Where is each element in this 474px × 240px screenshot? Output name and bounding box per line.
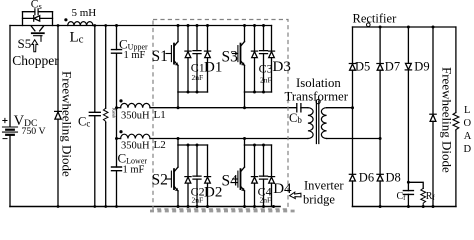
svg-text:D6: D6 bbox=[359, 171, 374, 185]
svg-text:D1: D1 bbox=[204, 59, 222, 75]
wire Cf-Rf link bbox=[408, 182, 423, 188]
svg-text:D2: D2 bbox=[204, 184, 222, 200]
wire node B (lower phase) with inductor L2 bbox=[117, 138, 121, 140]
svg-text:S3: S3 bbox=[222, 49, 239, 66]
diode D3 bbox=[268, 26, 274, 93]
svg-text:D9: D9 bbox=[414, 60, 429, 74]
wire node A (upper phase) with inductor L1 bbox=[117, 107, 121, 109]
svg-text:5 mH: 5 mH bbox=[72, 7, 97, 19]
transistor S3 IGBT leg bbox=[233, 26, 245, 93]
transistor S5 chopper IGBT bbox=[31, 26, 44, 42]
transformer isolation: primary winding bbox=[308, 108, 313, 139]
wire left rail bottom bbox=[9, 135, 11, 207]
svg-text:Transformer: Transformer bbox=[285, 89, 349, 103]
resistor LOAD bbox=[453, 113, 459, 131]
svg-text:bridge: bridge bbox=[303, 192, 335, 206]
wire D5/D6 branch bbox=[352, 27, 354, 207]
wire freewheeling branch (right) bbox=[432, 27, 434, 207]
svg-text:L: L bbox=[464, 105, 470, 116]
transformer secondary winding bbox=[321, 108, 326, 139]
svg-text:2nF: 2nF bbox=[192, 73, 204, 82]
arrow inverter bridge (hollow left arrow) bbox=[290, 192, 301, 199]
wire S1 phase stub bbox=[177, 92, 179, 108]
svg-text:A: A bbox=[464, 131, 472, 142]
capacitor Cs snubber top branch bbox=[23, 9, 53, 15]
capacitor Cc bbox=[89, 112, 100, 115]
resistor Rsnub branch bbox=[105, 26, 107, 207]
diode D4 bbox=[268, 145, 274, 207]
svg-text:350uH: 350uH bbox=[121, 141, 150, 152]
svg-text:Inverter: Inverter bbox=[304, 178, 344, 192]
capacitor Cf bbox=[403, 191, 413, 195]
arrow S5 gate (hollow up arrow) bbox=[32, 40, 38, 52]
svg-text:Chopper: Chopper bbox=[12, 53, 59, 68]
svg-text:2nF: 2nF bbox=[260, 195, 272, 204]
wire D7/D8 branch bbox=[379, 27, 381, 207]
transformer shield terminal circle bbox=[316, 100, 320, 104]
wire midpoint branch bbox=[116, 26, 118, 207]
svg-text:2nF: 2nF bbox=[260, 75, 272, 84]
wire rectifier top rail bbox=[353, 26, 456, 28]
svg-text:Rectifier: Rectifier bbox=[353, 12, 398, 26]
capacitor C_Lower bbox=[112, 167, 122, 171]
capacitor C3 2nF bbox=[260, 26, 268, 93]
wire snubber stubs bbox=[23, 12, 53, 26]
svg-text:Isolation: Isolation bbox=[296, 76, 341, 90]
wire S4 phase stub bbox=[244, 139, 246, 146]
wire rectifier bottom rail bbox=[353, 206, 456, 208]
svg-text:Cs: Cs bbox=[31, 0, 42, 11]
terminal circle under Rectifier label bbox=[367, 23, 371, 27]
wire S1 leg bottom junction bbox=[178, 91, 208, 93]
diode snubber (chopper) bbox=[23, 16, 53, 22]
svg-text:D4: D4 bbox=[273, 181, 292, 197]
wire freewheeling diode branch (left) bbox=[57, 26, 59, 207]
svg-text:Freewheeling Diode: Freewheeling Diode bbox=[439, 67, 454, 173]
diode D7 bbox=[377, 64, 383, 71]
diode D2 bbox=[204, 145, 210, 207]
capacitor Cb blocking bbox=[297, 104, 308, 112]
inductor L2 350uH bbox=[121, 134, 150, 138]
wire S3 phase stub bbox=[244, 92, 246, 108]
battery VDC bbox=[3, 118, 18, 138]
svg-text:D8: D8 bbox=[386, 171, 401, 185]
diode D1 bbox=[204, 26, 210, 93]
svg-text:350uH: 350uH bbox=[121, 111, 150, 122]
label LOAD bbox=[464, 105, 472, 155]
svg-text:S5: S5 bbox=[18, 36, 32, 51]
wire bottom rail (DC-) bbox=[10, 206, 280, 208]
inductor polarity dots bbox=[64, 18, 67, 21]
transistor S4 IGBT leg bbox=[233, 145, 245, 207]
dashed box inverter bridge bbox=[153, 20, 288, 210]
svg-text:L1: L1 bbox=[154, 109, 166, 121]
inductor Lc 5 mH bbox=[68, 22, 93, 26]
dashed box bottom thick dashes bbox=[150, 210, 295, 213]
svg-text:750 V: 750 V bbox=[22, 126, 46, 137]
transistor S2 IGBT leg bbox=[166, 145, 178, 207]
diode S4 antiparallel bbox=[251, 145, 257, 207]
wire secondary bottom bbox=[327, 138, 381, 140]
wire S4 leg top junction bbox=[245, 144, 272, 146]
svg-text:S1: S1 bbox=[152, 48, 168, 65]
wire secondary top bbox=[327, 107, 353, 109]
diode S3 antiparallel bbox=[251, 26, 257, 93]
svg-text:2nF: 2nF bbox=[192, 195, 204, 204]
resistor Rf bbox=[421, 188, 426, 206]
wire D9/Cf branch bbox=[407, 27, 409, 207]
svg-text:Freewheeling Diode: Freewheeling Diode bbox=[60, 71, 75, 177]
svg-text:D7: D7 bbox=[385, 60, 400, 74]
svg-text:D3: D3 bbox=[273, 59, 291, 75]
capacitor C1 2nF bbox=[193, 26, 201, 93]
svg-text:1 mF: 1 mF bbox=[123, 164, 145, 175]
diode D9 (reversed) bbox=[405, 63, 411, 70]
capacitor C_Upper bbox=[112, 50, 122, 54]
wire left rail top bbox=[9, 26, 11, 127]
svg-text:S4: S4 bbox=[222, 173, 239, 190]
diode freewheeling left bbox=[55, 111, 62, 119]
diode freewheeling right bbox=[430, 114, 436, 121]
diode D6 bbox=[349, 174, 355, 181]
transformer core bbox=[316, 101, 318, 144]
svg-text:D5: D5 bbox=[355, 60, 370, 74]
svg-text:S2: S2 bbox=[152, 172, 168, 189]
wire S2 leg top junction bbox=[178, 144, 208, 146]
svg-text:L2: L2 bbox=[154, 139, 166, 151]
resistor Rsnub zigzag bbox=[103, 108, 108, 122]
svg-text:O: O bbox=[464, 118, 472, 129]
svg-text:D: D bbox=[464, 144, 472, 155]
diode S1 antiparallel bbox=[185, 26, 191, 93]
wire top rail (DC+) bbox=[10, 25, 272, 27]
inductor L1 350uH bbox=[121, 103, 150, 107]
wire Cc branch bbox=[94, 26, 96, 207]
wire S2 phase stub bbox=[177, 139, 179, 146]
diode S2 antiparallel bbox=[185, 145, 191, 207]
svg-text:1 mF: 1 mF bbox=[124, 50, 146, 61]
diode D5 bbox=[349, 64, 355, 71]
diode D8 bbox=[377, 174, 383, 181]
capacitor C2 2nF bbox=[193, 145, 201, 207]
wire load branch bbox=[455, 27, 457, 207]
wire S3 leg bottom junction bbox=[245, 91, 272, 93]
capacitor C4 2nF bbox=[260, 145, 268, 207]
transistor S1 IGBT leg bbox=[166, 26, 178, 93]
svg-text:C3: C3 bbox=[259, 61, 273, 75]
